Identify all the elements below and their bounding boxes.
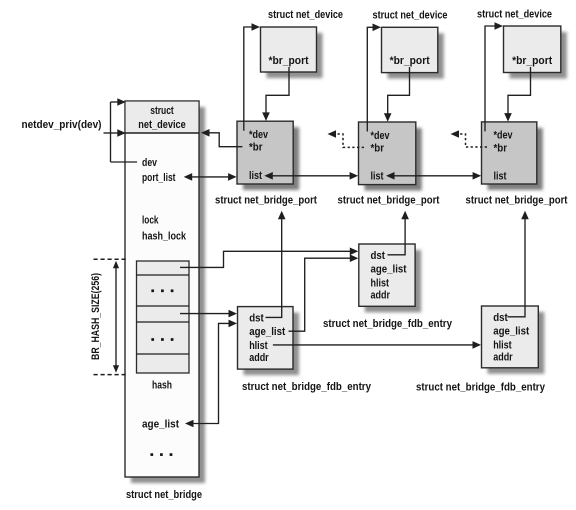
svg-text:age_list: age_list [371, 264, 407, 276]
svg-text:*dev: *dev [249, 129, 269, 141]
svg-text:*br_port: *br_port [512, 55, 552, 67]
svg-text:lock: lock [142, 214, 159, 226]
svg-text:addr: addr [249, 352, 269, 364]
svg-text:age_list: age_list [249, 326, 285, 338]
svg-text:dst: dst [249, 312, 264, 324]
svg-text:*br: *br [494, 142, 508, 154]
svg-text:*br: *br [249, 142, 263, 154]
svg-text:hlist: hlist [493, 339, 512, 351]
svg-text:struct net_bridge_fdb_entry: struct net_bridge_fdb_entry [242, 381, 372, 393]
svg-text:list: list [249, 170, 262, 182]
svg-text:age_list: age_list [493, 326, 529, 338]
svg-text:list: list [494, 171, 507, 183]
svg-text:dst: dst [371, 250, 386, 262]
svg-text:addr: addr [493, 351, 513, 363]
svg-text:struct net_bridge_port: struct net_bridge_port [338, 195, 440, 207]
svg-text:struct net_bridge_fdb_entry: struct net_bridge_fdb_entry [323, 318, 453, 330]
svg-text:struct net_bridge_fdb_entry: struct net_bridge_fdb_entry [416, 381, 546, 393]
svg-text:list: list [371, 171, 384, 183]
svg-text:struct net_device: struct net_device [477, 9, 552, 21]
svg-text:struct net_bridge: struct net_bridge [126, 489, 202, 501]
svg-text:dst: dst [493, 312, 508, 324]
svg-text:dev: dev [142, 157, 158, 169]
svg-text:*br: *br [371, 143, 385, 155]
svg-text:age_list: age_list [142, 419, 179, 431]
svg-text:hlist: hlist [249, 340, 268, 352]
svg-text:struct net_device: struct net_device [268, 9, 343, 21]
svg-text:struct: struct [150, 105, 174, 117]
svg-text:struct net_device: struct net_device [373, 9, 448, 21]
svg-text:hash_lock: hash_lock [142, 231, 187, 243]
svg-text:addr: addr [371, 289, 391, 301]
svg-text:netdev_priv(dev): netdev_priv(dev) [22, 119, 102, 131]
svg-text:hash: hash [152, 380, 172, 392]
svg-text:struct net_bridge_port: struct net_bridge_port [215, 195, 317, 207]
svg-text:hlist: hlist [371, 277, 390, 289]
svg-text:*dev: *dev [371, 130, 391, 142]
svg-text:*dev: *dev [494, 130, 514, 142]
svg-text:*br_port: *br_port [390, 55, 430, 67]
svg-text:port_list: port_list [142, 172, 176, 184]
svg-text:net_device: net_device [138, 119, 186, 131]
svg-text:BR_HASH_SIZE(256): BR_HASH_SIZE(256) [90, 273, 102, 360]
svg-text:struct net_bridge_port: struct net_bridge_port [466, 195, 568, 207]
svg-text:*br_port: *br_port [269, 55, 309, 67]
